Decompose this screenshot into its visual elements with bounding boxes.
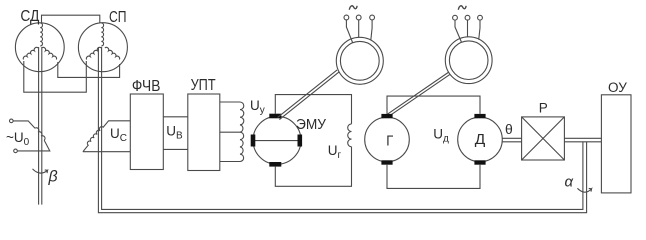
svg-text:Д: Д [475, 131, 486, 148]
wire to U0 winding [13, 121, 35, 128]
shaft СП + mechanical feedback line [98, 47, 586, 213]
svg-text:Uд: Uд [433, 127, 449, 145]
ЭМУ brush top [269, 114, 281, 119]
rotation arrow β [33, 169, 48, 173]
M1 terminal leads [346, 20, 372, 43]
svg-text:UВ: UВ [166, 124, 183, 142]
block УПТ [188, 94, 220, 171]
motor Д [458, 117, 503, 162]
stator crown СП [86, 47, 101, 59]
generator field winding Uг [348, 124, 352, 147]
ЭМУ brush right [298, 135, 303, 147]
stator crown СД [23, 47, 38, 59]
armature loop top Г-Д [387, 96, 480, 114]
generator Г [365, 117, 410, 162]
armature loop bottom Г-Д [387, 165, 480, 189]
svg-text:ФЧВ: ФЧВ [132, 78, 161, 95]
svg-text:ОУ: ОУ [608, 80, 627, 95]
ЭМУ brush bottom [269, 162, 281, 167]
shaft motor M2 to Г [386, 72, 450, 117]
synchro transmitter СД [15, 23, 64, 72]
M1 terminals [344, 15, 349, 20]
wire loop bottom [275, 147, 351, 187]
shaft Д to Р [502, 138, 521, 142]
svg-text:UС: UС [110, 126, 127, 144]
svg-text:α: α [565, 174, 574, 191]
rotor excitation winding U0 [35, 128, 45, 140]
Г brush bottom [381, 160, 392, 164]
control windings Uy [240, 102, 244, 162]
wire UB upper [163, 116, 188, 118]
svg-text:УПТ: УПТ [191, 77, 216, 94]
svg-text:β: β [48, 169, 58, 186]
svg-text:СД: СД [20, 8, 39, 25]
label ~ M1 [349, 6, 357, 10]
svg-text:ЭМУ: ЭМУ [296, 116, 326, 133]
gearbox Р [522, 117, 565, 160]
wires УПТ to Uy coils [220, 102, 240, 162]
shaft motor M1 to ЭМУ [278, 70, 339, 120]
wire UB lower [163, 148, 188, 150]
ЭМУ quadrature axis line [253, 140, 301, 142]
svg-text:Uу: Uу [250, 98, 265, 116]
rotor winding СП [101, 23, 103, 46]
wire Uc lower [83, 151, 130, 153]
rotation arrow α [577, 188, 591, 192]
M2 terminal leads [455, 20, 480, 42]
wire stator link lower [24, 61, 87, 92]
shaft Р to ОУ [564, 138, 601, 142]
rotor output winding Uc [83, 121, 130, 152]
svg-text:θ: θ [505, 121, 513, 137]
svg-text:~U0: ~U0 [6, 130, 30, 148]
wire rotor top link [42, 15, 100, 23]
svg-text:Р: Р [539, 100, 548, 115]
ЭМУ brush left [251, 135, 256, 147]
M2 terminals [453, 15, 458, 20]
control object ОУ [601, 95, 631, 193]
svg-text:СП: СП [109, 9, 127, 26]
AC motor M2 [445, 37, 492, 84]
AC motor M1 [336, 37, 383, 84]
svg-text:Г: Г [386, 132, 393, 149]
amplidyne ЭМУ [253, 116, 301, 164]
shaft СД [39, 47, 42, 205]
label ~ M2 [458, 6, 466, 10]
synchro receiver СП [78, 23, 127, 72]
wire from U0 winding [18, 140, 50, 151]
rotor winding СД [40, 23, 42, 46]
ЭМУ output loop wire [275, 95, 351, 124]
Д brush bottom [474, 160, 485, 164]
svg-text:Uг: Uг [328, 143, 342, 161]
Д brush top [474, 114, 485, 118]
wire stator link upper [58, 62, 120, 77]
excitation terminals ~U0 [10, 119, 14, 123]
Г brush top [381, 114, 392, 118]
block ФЧВ [130, 94, 163, 170]
